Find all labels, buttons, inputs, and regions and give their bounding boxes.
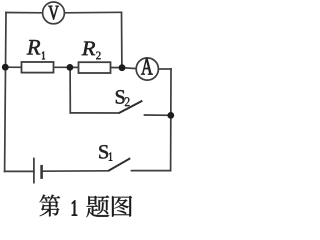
switch S2 blade <box>119 101 142 113</box>
switch S1 label subscript 1 <box>109 153 112 161</box>
wire voltmeter to top-right corner <box>65 11 122 14</box>
node A junction dot <box>2 64 9 71</box>
node B junction dot <box>119 64 126 71</box>
ammeter A letter <box>141 59 152 75</box>
wire bottom left to battery <box>5 170 34 172</box>
resistor R2 label R <box>82 42 95 56</box>
caption char 第 <box>40 195 61 217</box>
wire top-left to voltmeter <box>6 12 43 14</box>
wire right vertical rail <box>170 69 172 171</box>
wire S1 contact to bottom-right corner <box>132 170 171 172</box>
resistor R1 label R <box>27 40 40 54</box>
wire node C branch down to S2 <box>69 67 71 113</box>
caption number 1 <box>72 201 77 216</box>
wire ammeter to right rail <box>158 68 171 70</box>
wire node A to R1 <box>5 66 21 68</box>
resistor R2 box <box>79 62 111 73</box>
caption char 图 <box>112 196 132 217</box>
switch S2 label S <box>116 90 125 103</box>
wire R1 to node C <box>54 66 70 68</box>
wire node B to ammeter <box>122 67 136 70</box>
wire S2 branch horizontal to pivot <box>70 112 119 114</box>
wire battery to S1 pivot <box>42 170 109 172</box>
resistor R1 box <box>22 62 54 73</box>
switch S2 label subscript 2 <box>125 97 130 106</box>
ammeter A1 circle <box>136 58 158 80</box>
wire R2 to node B <box>111 67 123 69</box>
switch S1 blade <box>109 158 131 171</box>
resistor R2 label subscript 2 <box>96 52 100 60</box>
voltmeter V letter <box>48 6 58 20</box>
switch S1 label S <box>99 145 108 158</box>
node D junction dot <box>167 112 174 119</box>
node C junction dot <box>67 64 74 71</box>
voltmeter V1 circle <box>43 2 65 24</box>
battery BT1 long plate <box>33 158 35 184</box>
battery BT1 short plate <box>40 165 43 179</box>
caption char 题 <box>86 195 109 217</box>
wire voltmeter drop to node B <box>121 12 123 67</box>
wire left vertical <box>5 13 6 172</box>
wire S2 contact to node D <box>145 114 172 116</box>
wire node C to R2 <box>70 66 79 68</box>
resistor R1 label subscript 1 <box>42 52 45 60</box>
